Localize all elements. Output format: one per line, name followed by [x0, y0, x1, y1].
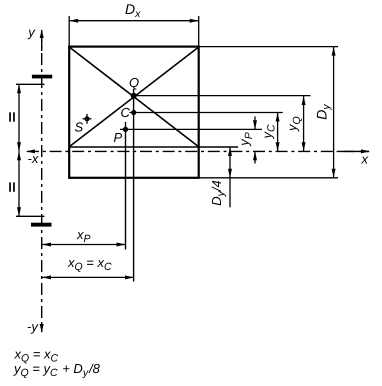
- bottom edge extension to the right for Dy: [199, 177, 338, 179]
- svg-text:x: x: [361, 151, 369, 166]
- y axis (dash-dot vertical): [41, 30, 43, 332]
- diagonal top-right to bottom-left: [69, 47, 199, 147]
- extension line above right corner for Dx: [198, 16, 200, 46]
- xQ=xC left arrowhead: [42, 275, 51, 279]
- extension line above left corner for Dx: [68, 16, 70, 46]
- x axis left arrowhead (-x direction): [26, 149, 35, 153]
- horizontal line at bottom of diagonals: [69, 146, 238, 148]
- vertical line through Q and C down to xQ dimension: [133, 89, 135, 282]
- y axis top arrowhead: [40, 29, 44, 38]
- Dy/4 top arrowhead: [228, 147, 232, 156]
- main rectangle (test piece outline): [69, 47, 199, 178]
- Dx left arrowhead: [69, 19, 78, 23]
- lower tick line at y=216: [16, 215, 45, 217]
- Dy/4 bottom arrowhead: [228, 169, 232, 178]
- lower break bar on y axis: [31, 223, 52, 227]
- y axis bottom arrowhead: [40, 324, 44, 333]
- Dy bottom arrowhead: [332, 169, 336, 178]
- yC top arrowhead: [276, 113, 280, 122]
- extension line right from P: [120, 128, 262, 130]
- xP right arrowhead: [117, 243, 126, 247]
- point Q: [131, 93, 137, 99]
- Dy top arrowhead: [332, 47, 336, 56]
- x axis right arrowhead: [361, 149, 370, 153]
- upper II dimension line: [18, 84, 20, 151]
- point S marker horizontal tick: [83, 118, 92, 120]
- diagonal top-left to bottom-right: [69, 47, 199, 147]
- x axis solid run before right arrowhead: [339, 150, 369, 152]
- top edge extension to the right for Dy: [199, 46, 338, 48]
- yQ top arrowhead: [302, 96, 306, 105]
- Dx right arrowhead: [190, 19, 199, 23]
- Dx dimension line: [69, 20, 199, 22]
- xQ=xC right arrowhead: [125, 275, 134, 279]
- point P: [123, 127, 128, 132]
- xQ=xC dimension line: [42, 276, 134, 278]
- yP dimension upper segment with down arrow: [254, 117, 256, 130]
- yQ bottom arrowhead: [302, 142, 306, 151]
- xP left arrowhead: [42, 243, 51, 247]
- x axis (dash-dot horizontal): [27, 150, 369, 152]
- upper break bar on y axis: [32, 75, 52, 79]
- yP dimension lower segment with up arrow: [254, 151, 256, 163]
- extension line right from Q: [134, 95, 311, 97]
- lower II dimension line: [18, 151, 20, 216]
- Dy/4 dimension line: [229, 147, 231, 207]
- point S marker vertical tick: [86, 114, 88, 124]
- point C: [131, 110, 136, 115]
- yQ dimension line: [303, 96, 305, 151]
- svg-text:P: P: [114, 130, 123, 145]
- upper tick line at y=84: [16, 83, 45, 85]
- y axis solid run below top arrowhead: [41, 33, 43, 51]
- label II lower: [9, 182, 15, 191]
- svg-text:S: S: [75, 120, 84, 135]
- yC bottom arrowhead: [276, 142, 280, 151]
- svg-text:Q: Q: [129, 75, 139, 90]
- yC dimension line: [277, 113, 279, 152]
- label II upper: [9, 112, 15, 121]
- svg-text:C: C: [121, 105, 131, 120]
- svg-text:-x: -x: [28, 151, 39, 166]
- Dy dimension line: [333, 47, 335, 178]
- svg-text:-y: -y: [27, 319, 39, 334]
- xP dimension line: [42, 244, 126, 246]
- extension line right from C: [130, 112, 283, 114]
- point S marker dot: [85, 116, 90, 121]
- vertical line through P down to xP dimension: [125, 122, 127, 250]
